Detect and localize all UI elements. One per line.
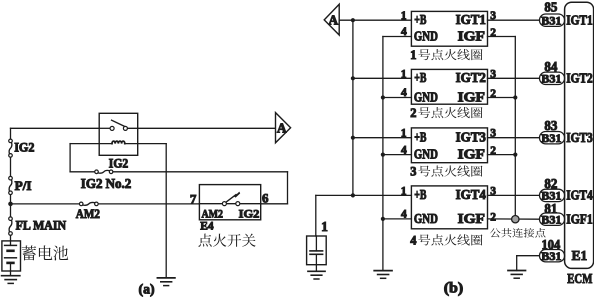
label 4号点火线圈 — [410, 234, 482, 248]
pin 1 label (coil 1) — [401, 10, 407, 22]
label 点火开关 (ignition switch) — [198, 234, 255, 247]
svg-text:IG2 No.2: IG2 No.2 — [81, 176, 132, 191]
ignition switch E4 box — [199, 185, 260, 220]
ignition coil 1 (1号点火线圈) box — [411, 11, 487, 46]
label ECM — [567, 271, 592, 286]
label IGF1 (ECM) — [566, 211, 593, 226]
wire: GND bus to coil 2 — [383, 97, 412, 99]
label 3号点火线圈 — [410, 165, 482, 179]
connector B31 pin 81 — [540, 202, 565, 227]
wire: FL MAIN to battery — [10, 235, 12, 241]
wire: coil 4 IGF to common point to ECM — [488, 218, 540, 220]
wire: +B bus to coil 2 — [353, 77, 412, 79]
connector B31 pin 85 — [540, 1, 565, 28]
label 蓄电池 (battery) — [22, 245, 68, 260]
label GND (coil 1) — [414, 29, 438, 44]
wire: relay coil right to ground — [165, 144, 167, 278]
svg-text:E1: E1 — [572, 248, 588, 263]
relay IG2 coil — [70, 141, 166, 144]
svg-text:+B: +B — [414, 70, 426, 85]
svg-text:AM2: AM2 — [76, 206, 100, 221]
junction: battery rail / AM2 branch — [8, 202, 13, 207]
label IGF (coil 2) — [458, 90, 485, 105]
label E1 (ECM) — [572, 248, 588, 263]
wire: ECM E1 to ground — [517, 256, 539, 271]
svg-text:+B: +B — [414, 130, 426, 145]
fuse IG2 (left rail) — [9, 139, 35, 157]
svg-text:2: 2 — [490, 88, 496, 100]
svg-text:1: 1 — [401, 10, 407, 22]
ignition coil 4 (4号点火线圈) box — [411, 186, 487, 229]
svg-text:2: 2 — [490, 145, 496, 157]
wire: IG2 No.2 fuse to ignition switch terminal 6 — [113, 172, 288, 204]
pin 3 label (coil 1) — [490, 10, 496, 22]
pin 4 label (coil 2) — [401, 87, 407, 99]
connector B31 pin 104 — [540, 238, 565, 263]
svg-text:4: 4 — [401, 144, 407, 156]
svg-text:IGF: IGF — [458, 211, 485, 226]
svg-text:4: 4 — [410, 234, 416, 248]
pin 2 label (coil 4) — [490, 212, 496, 224]
svg-text:IG2: IG2 — [14, 139, 34, 154]
label E4 — [200, 219, 213, 233]
svg-text:1: 1 — [410, 48, 416, 62]
wire: coil 4 IGT4 to ECM — [488, 194, 540, 196]
svg-text:GND: GND — [414, 90, 438, 105]
svg-text:83: 83 — [544, 119, 557, 134]
pin 1 label (coil 2) — [401, 68, 407, 80]
svg-text:84: 84 — [544, 60, 557, 75]
label IG2 (E4 terminal) — [239, 206, 260, 220]
connector A (from part a) — [324, 4, 339, 35]
svg-text:FL MAIN: FL MAIN — [16, 219, 67, 233]
svg-text:1: 1 — [321, 219, 328, 234]
junction: +B bus top — [351, 18, 355, 22]
fuse IG2 No.2 — [81, 170, 132, 191]
label +B (coil 2) — [414, 70, 426, 85]
wire: GND bus to coil 4 — [383, 218, 412, 220]
relay IG2 box — [99, 113, 138, 155]
pin 4 label (coil 4) — [401, 209, 407, 221]
wire: P/I fuse to junction — [10, 195, 12, 204]
pin 2 label (coil 3) — [490, 145, 496, 157]
wire: +B bus vertical — [352, 20, 354, 195]
label IGF (coil 4) — [458, 211, 485, 226]
label IGT3 (ECM) — [566, 130, 593, 145]
pin 4 label (coil 3) — [401, 144, 407, 156]
svg-text:IGF: IGF — [458, 147, 485, 162]
svg-text:2: 2 — [490, 212, 496, 224]
relay IG2 switch contact — [99, 120, 127, 130]
svg-text:GND: GND — [414, 211, 438, 226]
wire: GND bus to coil 3 — [383, 154, 412, 156]
svg-text:4: 4 — [401, 87, 407, 99]
pin 1 label (coil 3) — [401, 128, 407, 140]
wire: coil 1 IGT1 to ECM — [488, 19, 540, 21]
svg-text:IGF: IGF — [458, 90, 485, 105]
label GND (coil 3) — [414, 147, 438, 162]
pin 6 label (E4) — [262, 190, 269, 205]
ground: E1 ground — [508, 271, 526, 279]
junction: GND bus coil 2 — [381, 95, 385, 99]
label IG2 (relay) — [109, 156, 128, 170]
svg-text:2: 2 — [490, 27, 496, 39]
svg-text:IGT2: IGT2 — [456, 70, 487, 85]
svg-text:A: A — [277, 120, 287, 135]
ground: GND bus ground — [374, 271, 392, 279]
ECM connector strip — [565, 2, 594, 268]
ground: relay coil ground — [157, 278, 175, 286]
wire: GND bus vertical — [383, 37, 412, 271]
svg-text:IG2: IG2 — [239, 206, 260, 220]
wire: junction to FL MAIN — [10, 204, 12, 217]
svg-text:+B: +B — [414, 187, 426, 202]
node: common connection point 公共连接点 — [512, 216, 519, 223]
label IGT3 (coil 3) — [456, 130, 487, 145]
pin 3 label (coil 2) — [490, 68, 496, 80]
junction: +B bus coil 4 / capacitor — [351, 193, 355, 197]
wire: coil 2 IGT2 to ECM — [488, 77, 540, 79]
wire: junction to AM2 fuse to ignition switch terminal 7 — [11, 203, 200, 205]
svg-text:E4: E4 — [200, 219, 213, 233]
wire: capacitor branch and coil 4 +B — [316, 195, 412, 236]
pin 2 label (coil 2) — [490, 88, 496, 100]
ignition coil 2 (2号点火线圈) box — [411, 69, 487, 104]
svg-text:IGT2: IGT2 — [566, 70, 593, 85]
wire: relay switch to connector A — [128, 127, 276, 129]
svg-text:4: 4 — [401, 26, 407, 38]
svg-text:IGT4: IGT4 — [566, 188, 593, 203]
svg-text:GND: GND — [414, 147, 438, 162]
fuse FL MAIN (fusible link) — [9, 217, 66, 235]
svg-text:IGT1: IGT1 — [456, 12, 486, 27]
svg-text:(a): (a) — [139, 281, 155, 297]
svg-text:IGT3: IGT3 — [456, 130, 487, 145]
svg-text:+B: +B — [414, 12, 426, 27]
svg-text:IG2: IG2 — [109, 156, 128, 170]
label IGF (coil 1) — [458, 29, 485, 44]
pin 3 label (coil 3) — [490, 128, 496, 140]
label IGT2 (ECM) — [566, 70, 593, 85]
svg-text:85: 85 — [544, 1, 557, 16]
connector B31 pin 84 — [540, 60, 565, 86]
pin 7 label (E4) — [190, 192, 197, 207]
svg-text:IGT4: IGT4 — [456, 187, 487, 202]
svg-text:IGF1: IGF1 — [566, 211, 593, 226]
fuse P/I — [9, 176, 32, 194]
svg-text:6: 6 — [262, 190, 269, 205]
wire: +B bus to coil 3 — [353, 137, 412, 139]
label 公共连接点 — [490, 228, 546, 238]
label IGT2 (coil 2) — [456, 70, 487, 85]
wire: relay coil left to IG2 No.2 fuse line — [70, 144, 95, 172]
fuse AM2 — [76, 202, 100, 221]
svg-text:4: 4 — [401, 209, 407, 221]
svg-text:3: 3 — [410, 165, 416, 179]
svg-text:104: 104 — [542, 238, 561, 253]
junction: GND bus coil 3 — [381, 153, 385, 157]
label GND (coil 2) — [414, 90, 438, 105]
wire: connector A to coil 1 +B — [339, 19, 411, 21]
ignition coil 3 (3号点火线圈) box — [411, 128, 487, 163]
label IGT1 (ECM) — [566, 12, 593, 27]
pin 4 label (coil 1) — [401, 26, 407, 38]
svg-text:81: 81 — [544, 202, 557, 217]
svg-text:GND: GND — [414, 29, 438, 44]
label IGF (coil 3) — [458, 147, 485, 162]
connector A (to part b) — [276, 113, 291, 143]
capacitor 1 (noise filter) — [307, 236, 327, 265]
pin 3 label (coil 4) — [490, 185, 496, 197]
label IGT4 (ECM) — [566, 188, 593, 203]
battery 蓄电池 — [2, 241, 21, 271]
label IGT1 (coil 1) — [456, 12, 486, 27]
svg-text:P/I: P/I — [15, 178, 32, 193]
junction: IGF bus coil 2 — [488, 95, 518, 99]
junction: GND bus coil 4 — [381, 217, 385, 221]
label IGT4 (coil 4) — [456, 187, 487, 202]
junction: +B bus coil 2 — [351, 76, 355, 80]
svg-text:IGT1: IGT1 — [566, 12, 593, 27]
wire: coil 1 IGF to IGF bus — [488, 37, 516, 220]
label (a) — [139, 281, 155, 297]
svg-text:7: 7 — [190, 192, 197, 207]
svg-text:1: 1 — [401, 128, 407, 140]
label +B (coil 3) — [414, 130, 426, 145]
ground: battery ground — [2, 271, 20, 283]
junction: IGF bus coil 3 — [488, 153, 518, 157]
label GND (coil 4) — [414, 211, 438, 226]
junction: +B bus coil 3 — [351, 136, 355, 140]
svg-text:2: 2 — [410, 106, 416, 120]
svg-text:IGT3: IGT3 — [566, 130, 593, 145]
pin 2 label (coil 1) — [490, 27, 496, 39]
ignition switch contact — [199, 192, 260, 206]
label 1 (capacitor) — [321, 219, 328, 234]
svg-text:A: A — [328, 12, 338, 27]
connector B31 pin 82 — [540, 177, 565, 203]
connector B31 pin 83 — [540, 119, 565, 145]
svg-text:ECM: ECM — [567, 271, 592, 286]
svg-text:82: 82 — [544, 177, 557, 192]
wire: IG2 fuse to P/I fuse — [10, 157, 12, 176]
svg-text:IGF: IGF — [458, 29, 485, 44]
label 1号点火线圈 — [410, 48, 482, 62]
wire: coil 3 IGT3 to ECM — [488, 137, 540, 139]
ground: capacitor ground — [308, 265, 325, 279]
svg-text:1: 1 — [401, 185, 407, 197]
label AM2 (E4 terminal) — [202, 206, 224, 220]
label +B (coil 4) — [414, 187, 426, 202]
svg-text:1: 1 — [401, 68, 407, 80]
svg-text:(b): (b) — [444, 280, 464, 296]
label +B (coil 1) — [414, 12, 426, 27]
label (b) — [444, 280, 464, 296]
wire: battery rail top horizontal to relay switch — [11, 128, 100, 139]
pin 1 label (coil 4) — [401, 185, 407, 197]
label 2号点火线圈 — [410, 106, 482, 120]
